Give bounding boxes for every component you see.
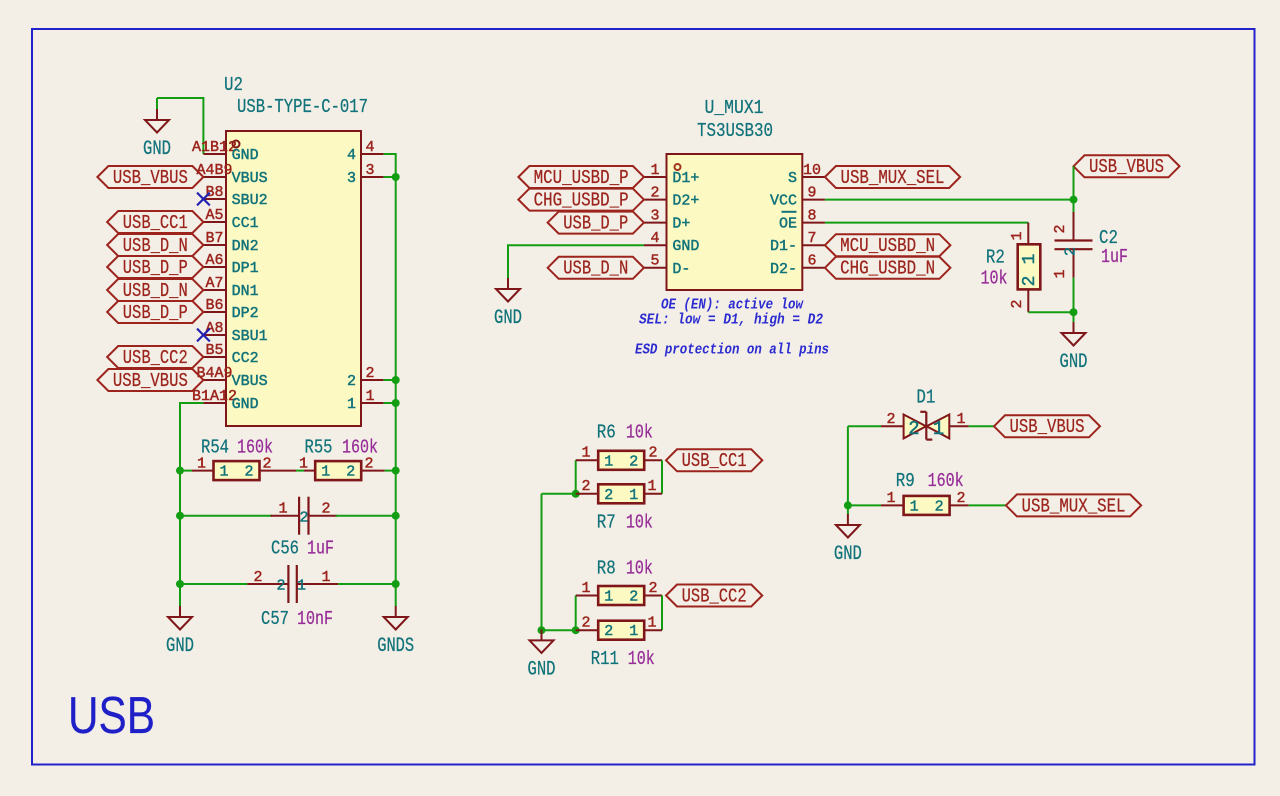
svg-text:9: 9 [807, 184, 816, 201]
U2 pin 4 [347, 139, 384, 164]
R9 reference and value [896, 470, 964, 492]
svg-text:USB_D_P: USB_D_P [123, 302, 188, 324]
svg-text:D1-: D1- [770, 238, 797, 255]
svg-text:B6: B6 [205, 297, 223, 314]
svg-text:USB: USB [68, 687, 155, 745]
hierarchical label USB_MUX_SEL [1006, 494, 1141, 517]
junction R11 row at main vertical [538, 626, 546, 634]
U_MUX1 pin 9 VCC [770, 184, 825, 209]
svg-text:SBU1: SBU1 [232, 328, 268, 345]
U_MUX1 pin 4 GND [644, 230, 700, 255]
C2 reference and value [1099, 227, 1128, 268]
svg-text:USB_CC1: USB_CC1 [123, 212, 188, 234]
svg-text:USB_MUX_SEL: USB_MUX_SEL [1022, 495, 1126, 517]
svg-text:1: 1 [219, 464, 228, 481]
svg-text:4: 4 [365, 139, 374, 156]
hierarchical label USB_CC2 [107, 346, 203, 369]
svg-text:R9: R9 [896, 470, 915, 492]
capacitor C2 [1052, 212, 1093, 279]
svg-text:DP1: DP1 [232, 260, 259, 277]
svg-text:1: 1 [647, 615, 656, 632]
wire into R11 row [542, 629, 576, 631]
svg-text:U2: U2 [224, 74, 243, 96]
hierarchical label USB_D_N [548, 257, 644, 280]
svg-text:10nF: 10nF [297, 608, 333, 630]
U_MUX1 pin 7 D1- [770, 230, 825, 255]
junction at pin2 [392, 376, 400, 384]
hierarchical label USB_CC2 [666, 585, 762, 608]
svg-text:R54: R54 [201, 437, 229, 459]
svg-text:GND: GND [528, 658, 556, 681]
svg-text:2: 2 [276, 578, 285, 595]
wire C2 to gnd junction [1073, 278, 1075, 313]
svg-text:1: 1 [347, 396, 356, 413]
svg-text:GNDS: GNDS [377, 635, 414, 658]
svg-text:USB_MUX_SEL: USB_MUX_SEL [841, 167, 945, 189]
svg-text:GND: GND [232, 147, 259, 164]
svg-text:2: 2 [956, 490, 965, 507]
hierarchical label USB_D_P [548, 212, 644, 235]
U2 pin A4B9 VBUS [196, 162, 267, 187]
svg-text:DN2: DN2 [232, 238, 259, 255]
resistor R2 vertical [1009, 223, 1040, 313]
junction at pin3 [392, 173, 400, 181]
U2 pin A5 CC1 [203, 207, 258, 232]
wire into R7 row [542, 493, 576, 495]
junction right at R55 row [392, 467, 400, 475]
svg-text:1: 1 [278, 501, 287, 518]
wire U2 GND pin B1A12 down-left [180, 403, 203, 606]
connector U2 body [226, 131, 361, 426]
wire R8 right down to R11 right [661, 596, 663, 631]
junction at pin1 [392, 399, 400, 407]
wire R6 right down to R7 right [661, 460, 663, 494]
hierarchical label CHG_USBD_P [518, 189, 644, 212]
svg-text:10k: 10k [981, 268, 1008, 290]
hierarchical label MCU_USBD_N [825, 234, 951, 257]
svg-text:USB_CC1: USB_CC1 [682, 450, 747, 472]
svg-text:10k: 10k [626, 422, 653, 444]
R6 pin2 stub [644, 459, 662, 461]
svg-text:4: 4 [347, 147, 356, 164]
R7 reference and value [597, 512, 653, 534]
wire left vertical to C56 [180, 515, 272, 517]
R55 pin 1 stub [304, 470, 315, 472]
U2 pin B7 DN2 [203, 230, 258, 255]
U2 pin B4A9 VBUS [196, 365, 267, 390]
wire junction to R9 [848, 504, 881, 506]
junction right at C57 row [392, 580, 400, 588]
svg-text:TS3USB30: TS3USB30 [697, 120, 773, 142]
vertical wire down to R8 group [541, 494, 543, 630]
svg-text:10k: 10k [628, 648, 655, 670]
U2 pin A8 SBU1 [203, 320, 267, 345]
svg-text:C57: C57 [261, 608, 289, 630]
svg-text:S: S [788, 170, 797, 187]
U2 pin B6 DP2 [203, 297, 258, 322]
svg-text:SBU2: SBU2 [232, 192, 268, 209]
svg-text:B8: B8 [205, 184, 223, 201]
svg-text:1: 1 [321, 464, 330, 481]
svg-text:A5: A5 [205, 207, 223, 224]
svg-text:10k: 10k [626, 558, 653, 580]
hierarchical label USB_VBUS [97, 369, 203, 392]
svg-text:USB_CC2: USB_CC2 [682, 585, 747, 607]
svg-text:1: 1 [321, 569, 330, 586]
svg-text:2: 2 [886, 411, 895, 428]
ground symbol GND [528, 629, 556, 681]
junction left at R54 row [176, 467, 184, 475]
wire to D1 pin2 [848, 425, 881, 427]
ground symbol GND [494, 278, 522, 330]
svg-text:B5: B5 [205, 342, 223, 359]
svg-text:SEL: low = D1, high = D2: SEL: low = D1, high = D2 [639, 311, 823, 328]
svg-text:DP2: DP2 [232, 305, 259, 322]
svg-text:GND: GND [672, 238, 699, 255]
svg-text:GND: GND [143, 138, 171, 161]
svg-text:1: 1 [581, 445, 590, 462]
U2 pin A1B12 GND [192, 139, 259, 164]
svg-text:2: 2 [364, 455, 373, 472]
svg-text:2: 2 [1063, 247, 1080, 256]
svg-text:10k: 10k [626, 512, 653, 534]
svg-text:USB_D_N: USB_D_N [123, 235, 188, 257]
R54 pin 1 stub [192, 470, 214, 472]
svg-text:MCU_USBD_N: MCU_USBD_N [840, 235, 935, 257]
wire from U_MUX1 OE pin to R2 [825, 222, 1028, 224]
R55 pin 2 stub [361, 470, 384, 472]
svg-text:1: 1 [886, 490, 895, 507]
R54 pin 2 stub [260, 470, 297, 472]
svg-text:1: 1 [365, 388, 374, 405]
wire between R54 and R55 [296, 470, 304, 472]
wire R9 to USB_MUX_SEL label [969, 504, 1006, 506]
hierarchical label USB_D_P [107, 256, 203, 279]
junction gnd net [1070, 308, 1078, 316]
R55 reference and value [305, 437, 379, 459]
R7 pin1 stub [644, 493, 662, 495]
svg-text:2: 2 [262, 455, 271, 472]
wire U2 pin4 to right vertical [384, 154, 396, 606]
svg-text:R55: R55 [305, 437, 333, 459]
junction VCC net [1070, 196, 1078, 204]
svg-text:R8: R8 [597, 558, 616, 580]
svg-text:1: 1 [933, 418, 944, 440]
ground symbol GND [166, 606, 194, 658]
svg-text:1: 1 [629, 487, 638, 504]
svg-text:2: 2 [321, 501, 330, 518]
wire stub into ground [156, 98, 158, 110]
capacitor C56 [271, 497, 338, 535]
capacitor C57 [247, 565, 338, 603]
ground symbol GND [834, 514, 862, 566]
svg-text:2: 2 [365, 365, 374, 382]
svg-text:D+: D+ [672, 216, 690, 233]
C57 reference and value [261, 608, 333, 630]
U_MUX1 pin 2 D2+ [644, 184, 700, 209]
junction right at C56 row [392, 512, 400, 520]
junction left at C57 row [176, 580, 184, 588]
svg-text:USB_D_N: USB_D_N [563, 258, 628, 280]
svg-text:1: 1 [1009, 231, 1026, 240]
svg-text:USB_D_P: USB_D_P [123, 257, 188, 279]
resistor R11 10k [598, 621, 644, 641]
R11 pin2 stub [576, 629, 599, 631]
U_MUX1 pin 6 D2- [770, 253, 825, 278]
svg-text:10: 10 [803, 162, 821, 179]
svg-text:B7: B7 [205, 230, 223, 247]
wire from U_MUX1 VCC pin [825, 199, 1074, 201]
svg-text:ESD protection on all pins: ESD protection on all pins [635, 342, 829, 359]
hierarchical label USB_D_N [107, 279, 203, 302]
hierarchical label USB_VBUS [994, 415, 1100, 438]
svg-text:A1B12: A1B12 [192, 139, 237, 156]
wire left vertical of D1 group [847, 426, 849, 505]
R8 pin2 stub [644, 595, 662, 597]
svg-text:5: 5 [650, 253, 659, 270]
svg-text:2: 2 [581, 478, 590, 495]
svg-text:1: 1 [910, 498, 919, 515]
svg-text:2: 2 [604, 623, 613, 640]
svg-text:1: 1 [629, 623, 638, 640]
svg-text:3: 3 [650, 207, 659, 224]
resistor R7 10k [598, 484, 644, 504]
svg-text:A8: A8 [205, 320, 223, 337]
hierarchical label USB_VBUS [1074, 155, 1180, 178]
resistor R55 160k [315, 461, 361, 481]
svg-text:2: 2 [908, 418, 919, 440]
ground symbol GND [143, 109, 171, 161]
resistor R8 10k [598, 586, 644, 606]
svg-text:1: 1 [956, 411, 965, 428]
C56 reference and value [271, 538, 334, 560]
wire from GND to U2 pin A1B12 [157, 98, 203, 154]
hierarchical label USB_CC1 [666, 449, 762, 472]
no-connect flag on SBU1 [197, 329, 210, 342]
svg-text:D2+: D2+ [672, 193, 699, 210]
U_MUX1 pin 8 OE [779, 207, 825, 232]
wire U2 pin1 [384, 402, 396, 404]
svg-text:GND: GND [494, 307, 522, 330]
hierarchical label USB_D_P [107, 301, 203, 324]
svg-text:R2: R2 [986, 247, 1005, 269]
svg-text:USB_D_N: USB_D_N [123, 280, 188, 302]
wire junction to gnd [847, 505, 849, 514]
svg-text:2: 2 [935, 498, 944, 515]
resistor R6 10k [598, 451, 644, 471]
U2 pin 3 [347, 162, 384, 187]
svg-text:7: 7 [807, 230, 816, 247]
svg-text:1uF: 1uF [307, 538, 334, 560]
hierarchical label USB_CC1 [107, 211, 203, 234]
wire left vertical to R54 [180, 470, 192, 472]
svg-text:A6: A6 [205, 252, 223, 269]
U2 pin B1A12 GND [192, 388, 259, 413]
hierarchical label CHG_USBD_N [825, 257, 951, 280]
svg-text:U_MUX1: U_MUX1 [705, 97, 764, 119]
svg-text:VBUS: VBUS [232, 170, 268, 187]
svg-text:CC2: CC2 [232, 350, 259, 367]
svg-text:VCC: VCC [770, 193, 797, 210]
R8 reference and value [597, 558, 653, 580]
svg-text:2: 2 [299, 510, 308, 527]
ground symbol GND [1060, 322, 1088, 374]
U2 pin 2 [347, 365, 384, 390]
svg-text:2: 2 [648, 445, 657, 462]
wire R2 bottom to gnd junction [1028, 311, 1073, 313]
svg-text:D1+: D1+ [672, 170, 699, 187]
wire C56 to right vertical [336, 515, 396, 517]
wire R8 left down to junction [575, 596, 577, 631]
svg-text:MCU_USBD_P: MCU_USBD_P [534, 167, 629, 189]
junction left at C56 row [176, 512, 184, 520]
svg-text:1: 1 [581, 580, 590, 597]
wire D1 to USB_VBUS label [969, 425, 994, 427]
U_MUX1 pin 1 D1+ [644, 162, 700, 187]
svg-text:CHG_USBD_N: CHG_USBD_N [840, 258, 935, 280]
svg-text:USB_CC2: USB_CC2 [123, 347, 188, 369]
svg-text:D2-: D2- [770, 261, 797, 278]
junction D1/R9 gnd net [844, 501, 852, 509]
svg-text:R11: R11 [591, 648, 619, 670]
short wire to gnd [1073, 312, 1075, 322]
svg-text:1: 1 [647, 478, 656, 495]
wire left vertical to C57 [180, 583, 247, 585]
hierarchical label MCU_USBD_P [518, 166, 644, 189]
svg-text:1: 1 [1052, 269, 1069, 278]
U2 pin indicator circle [233, 141, 240, 148]
wire VCC net vertical [1073, 166, 1075, 212]
svg-text:2: 2 [581, 615, 590, 632]
wire C57 to right vertical [338, 583, 395, 585]
svg-text:2: 2 [1020, 276, 1040, 287]
svg-text:USB_VBUS: USB_VBUS [1010, 416, 1085, 438]
svg-text:1: 1 [604, 589, 613, 606]
U_MUX1 pin 10 S [788, 162, 825, 187]
R9 pin2 stub [950, 504, 969, 506]
svg-text:OE: OE [779, 216, 797, 233]
svg-text:GND: GND [1060, 351, 1088, 374]
svg-text:2: 2 [629, 589, 638, 606]
svg-text:2: 2 [253, 569, 262, 586]
ground symbol GNDS [377, 606, 414, 658]
R9 pin1 stub [881, 504, 904, 506]
svg-text:D1: D1 [916, 387, 935, 409]
R11 reference and value [591, 648, 655, 670]
svg-text:USB_VBUS: USB_VBUS [113, 370, 188, 392]
svg-text:1: 1 [1020, 254, 1040, 265]
resistor R9 160k [904, 496, 950, 516]
U2 pin B8 SBU2 [203, 184, 267, 209]
svg-text:2: 2 [604, 487, 613, 504]
R8 pin1 stub [576, 595, 599, 597]
svg-text:1: 1 [297, 578, 306, 595]
wire R55 to right vertical [385, 470, 396, 472]
svg-text:USB_D_P: USB_D_P [563, 213, 628, 235]
no-connect flag on SBU2 [197, 193, 210, 206]
svg-text:2: 2 [346, 464, 355, 481]
hierarchical label USB_MUX_SEL [825, 166, 960, 189]
svg-text:GND: GND [166, 635, 194, 658]
svg-text:D-: D- [672, 261, 690, 278]
wire U2 pin2 [384, 379, 396, 381]
hierarchical label USB_VBUS [97, 166, 203, 189]
svg-text:2: 2 [244, 464, 253, 481]
U_MUX1 pin 1 indicator circle [675, 164, 681, 170]
wire U_MUX1 GND pin to ground [508, 245, 644, 278]
svg-text:2: 2 [629, 453, 638, 470]
wire U2 pin3 [384, 176, 396, 178]
svg-text:CC1: CC1 [232, 215, 259, 232]
R54 reference and value [201, 437, 273, 459]
mux U_MUX1 body [667, 154, 803, 290]
svg-text:USB-TYPE-C-017: USB-TYPE-C-017 [237, 96, 368, 118]
svg-text:GND: GND [232, 396, 259, 413]
R2 reference and value [981, 247, 1008, 290]
svg-text:R7: R7 [597, 512, 616, 534]
svg-text:1: 1 [650, 162, 659, 179]
svg-text:A7: A7 [205, 275, 223, 292]
R6 reference and value [597, 422, 653, 444]
wire junction to gnd [541, 630, 543, 633]
resistor R54 160k [214, 461, 260, 481]
U2 pin B5 CC2 [203, 342, 258, 367]
svg-text:DN1: DN1 [232, 283, 259, 300]
svg-text:GND: GND [834, 543, 862, 566]
U_MUX1 pin 5 D- [644, 253, 691, 278]
svg-text:R6: R6 [597, 422, 616, 444]
svg-text:3: 3 [347, 170, 356, 187]
svg-text:C56: C56 [271, 538, 299, 560]
wire R6 left down to junction [575, 460, 577, 494]
svg-text:2: 2 [1052, 224, 1069, 233]
R11 pin1 stub [644, 629, 662, 631]
svg-text:USB_VBUS: USB_VBUS [113, 167, 188, 189]
svg-text:1: 1 [604, 453, 613, 470]
TVS diode D1 [881, 411, 969, 440]
hierarchical label USB_D_N [107, 234, 203, 257]
svg-text:4: 4 [650, 230, 659, 247]
U2 pin A7 DN1 [203, 275, 258, 300]
svg-text:USB_VBUS: USB_VBUS [1089, 156, 1164, 178]
junction R7 row [572, 490, 580, 498]
svg-text:2: 2 [648, 580, 657, 597]
R6 pin1 stub [576, 459, 599, 461]
svg-text:2: 2 [1009, 299, 1026, 308]
svg-text:2: 2 [650, 184, 659, 201]
svg-text:CHG_USBD_P: CHG_USBD_P [534, 190, 629, 212]
R7 pin2 stub [576, 493, 599, 495]
svg-text:6: 6 [807, 253, 816, 270]
U2 pin A6 DP1 [203, 252, 258, 277]
U_MUX1 pin 3 D+ [644, 207, 691, 232]
U2 pin 1 [347, 388, 384, 413]
junction R11 row [572, 626, 580, 634]
svg-text:1uF: 1uF [1101, 246, 1128, 268]
svg-text:2: 2 [347, 373, 356, 390]
svg-text:3: 3 [365, 162, 374, 179]
svg-text:8: 8 [807, 207, 816, 224]
